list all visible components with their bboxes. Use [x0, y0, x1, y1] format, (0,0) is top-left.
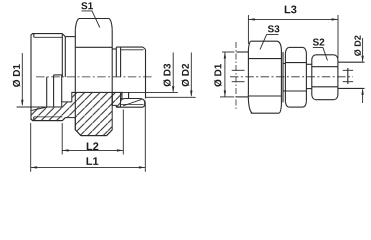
neckA bottom — [283, 90, 285, 92]
tube1 top edge — [237, 51, 249, 53]
S2 leader — [313, 48, 328, 61]
hex S2 left face — [311, 60, 313, 96]
dim OD3: line — [172, 53, 174, 92]
label S3 — [268, 25, 280, 32]
block2 right face — [305, 53, 307, 101]
dim L1: left extension — [30, 123, 32, 172]
dim L3: line — [248, 18, 338, 20]
stud1 thread line top — [34, 36, 63, 38]
tube2 end break tick — [347, 68, 349, 84]
block2 bottom-right arc — [303, 101, 306, 107]
hatched collar wedge right port — [112, 92, 122, 107]
neck1 face line — [64, 37, 66, 77]
hex S2 across line lower — [312, 86, 338, 88]
label OD3 — [163, 64, 171, 87]
dim L2: line — [62, 149, 123, 151]
label S2 — [313, 39, 325, 46]
dim L1: line — [31, 166, 146, 168]
stud1 chamfer line bottom — [33, 117, 35, 120]
S3 leader — [260, 35, 278, 50]
hex S1 top flat — [79, 18, 109, 20]
internal counterbore top — [54, 74, 62, 76]
neckB bottom — [306, 88, 311, 90]
tube1 bore line top — [232, 69, 245, 71]
centerline left drawing — [36, 76, 153, 78]
hex S1 left face — [74, 30, 76, 130]
block2 across line upper — [285, 62, 306, 64]
stud1 top edge — [32, 33, 62, 35]
stud1 bottom-left chamfer — [31, 119, 33, 120]
dim L1: right extension — [144, 102, 146, 172]
seal ring groove band — [121, 99, 145, 108]
internal thread line v1 — [46, 77, 48, 107]
block2 top-right arc — [303, 47, 306, 53]
tube1 bottom edge — [237, 96, 249, 98]
label L1 — [87, 157, 99, 165]
dim OD1: extension line — [17, 107, 47, 111]
nut S3 top-right arc — [278, 41, 282, 49]
label L3 — [285, 6, 297, 14]
dim OD3: extension line — [72, 91, 178, 93]
stud2 right end face — [145, 49, 147, 98]
stud1 left end face — [30, 35, 32, 120]
block2 across line lower — [285, 90, 306, 92]
nut S3 top flat — [251, 40, 278, 42]
label S1 — [81, 2, 93, 9]
nut S3 across line upper — [248, 58, 281, 60]
dim OD2R: arrow top — [361, 56, 363, 62]
hex S2 bottom flat — [316, 99, 334, 101]
block2 left face — [284, 53, 286, 101]
hex S1 top-right arc — [109, 19, 112, 30]
thread runout line — [61, 34, 63, 77]
dim OD1R: bottom extension — [220, 96, 234, 98]
hex S1 right face — [111, 30, 113, 106]
dim OD2R: arrow bottom — [361, 88, 363, 94]
dim OD2L: line — [190, 53, 192, 96]
tube1 bore line bottom — [232, 81, 245, 83]
seal diagonal mark — [123, 99, 142, 105]
dim OD1: arrow — [21, 100, 23, 107]
neckB top — [306, 63, 311, 65]
dim OD1R: top extension — [222, 51, 234, 53]
hex S1 bottom-right chamfer — [107, 130, 113, 136]
tube1 break line (vertical dash-dot) — [235, 42, 237, 111]
neckA top — [283, 63, 285, 65]
stud2 thread line top — [121, 49, 144, 51]
stud2 thread line bottom — [121, 103, 144, 105]
hatched section body — [31, 92, 112, 135]
nut S3 bottom flat — [251, 112, 279, 114]
hex S1 bottom flat — [81, 135, 107, 137]
nut right face double line — [282, 52, 284, 102]
hex S2 top-left arc — [312, 55, 316, 60]
dim L3: arrows — [248, 18, 338, 20]
dim OD2L: arrow — [190, 91, 192, 97]
dim OD2R: line top — [362, 38, 364, 61]
dim L3: right extension — [337, 15, 339, 58]
hex S1 top-left arc — [75, 19, 79, 30]
stud1 chamfer line top — [33, 34, 35, 37]
label OD2R — [354, 36, 361, 56]
S1 leader — [82, 11, 100, 28]
block2 bottom flat — [289, 106, 303, 108]
dim L3: left extension — [247, 15, 249, 44]
stud2 top-right chamfer — [143, 47, 146, 49]
label OD1R — [214, 64, 222, 87]
stud2 top edge — [116, 46, 143, 48]
dim OD1R: arrows — [224, 52, 226, 97]
hex S1 bottom-left chamfer — [75, 130, 81, 136]
nut S3 right face — [280, 50, 282, 105]
nut S3 across line lower — [248, 95, 281, 97]
hex S1 across-corner line — [75, 46, 112, 48]
collar2 right line — [120, 47, 122, 77]
hex S2 right face — [337, 60, 339, 96]
label OD2L — [182, 64, 190, 87]
runout chamfer bottom — [62, 118, 65, 121]
label OD1L — [13, 64, 21, 87]
nut S3 left face — [247, 50, 249, 92]
tube2 bore line top — [343, 69, 354, 71]
dim OD1R: line — [224, 52, 226, 97]
dim OD3: arrow — [172, 86, 174, 92]
hatched end sliver right port — [144, 99, 147, 107]
dim L2: left extension — [61, 123, 63, 155]
hex S2 top-right arc — [334, 55, 338, 60]
internal counterbore wall — [61, 75, 63, 102]
block2 top flat — [289, 46, 303, 48]
runout chamfer top — [62, 34, 65, 37]
block2 top-left arc — [285, 47, 288, 53]
nut S3 bottom-left arc — [248, 92, 252, 114]
dim OD2L: extension line — [146, 96, 196, 98]
stud2 bottom edge — [116, 106, 143, 108]
hex S2 bottom-right arc — [334, 95, 338, 100]
neck1 top edge — [65, 36, 75, 38]
block2 bottom-left arc — [285, 101, 288, 107]
nut S3 bottom-right arc — [279, 105, 281, 113]
neck2 top edge — [112, 48, 116, 50]
dim L2: arrows — [62, 149, 123, 151]
tube2 bottom edge — [338, 87, 365, 89]
stud2 bottom chamfer — [143, 105, 146, 107]
hex S2 top flat — [316, 54, 334, 56]
dim OD2R: line bottom — [362, 90, 364, 103]
internal thread line v2 — [53, 75, 55, 107]
stud1 thread line bottom — [34, 116, 63, 118]
stud1 top-left chamfer — [31, 34, 33, 35]
stud1 bottom edge — [32, 120, 62, 122]
hex S2 bottom-left arc — [312, 95, 316, 100]
dim L1: arrows — [31, 166, 146, 168]
thread runout lines right port — [121, 92, 129, 98]
dim L2: right extension — [122, 110, 124, 155]
tube2 top edge — [338, 61, 365, 63]
label L2 — [87, 142, 99, 150]
nut S3 top-left arc — [248, 41, 250, 49]
dim OD1: line — [21, 53, 23, 105]
tube2 bore line bottom — [343, 81, 354, 83]
collar2 left line — [115, 47, 117, 77]
hex S2 across line upper — [312, 66, 338, 68]
centerline right drawing — [230, 76, 353, 78]
